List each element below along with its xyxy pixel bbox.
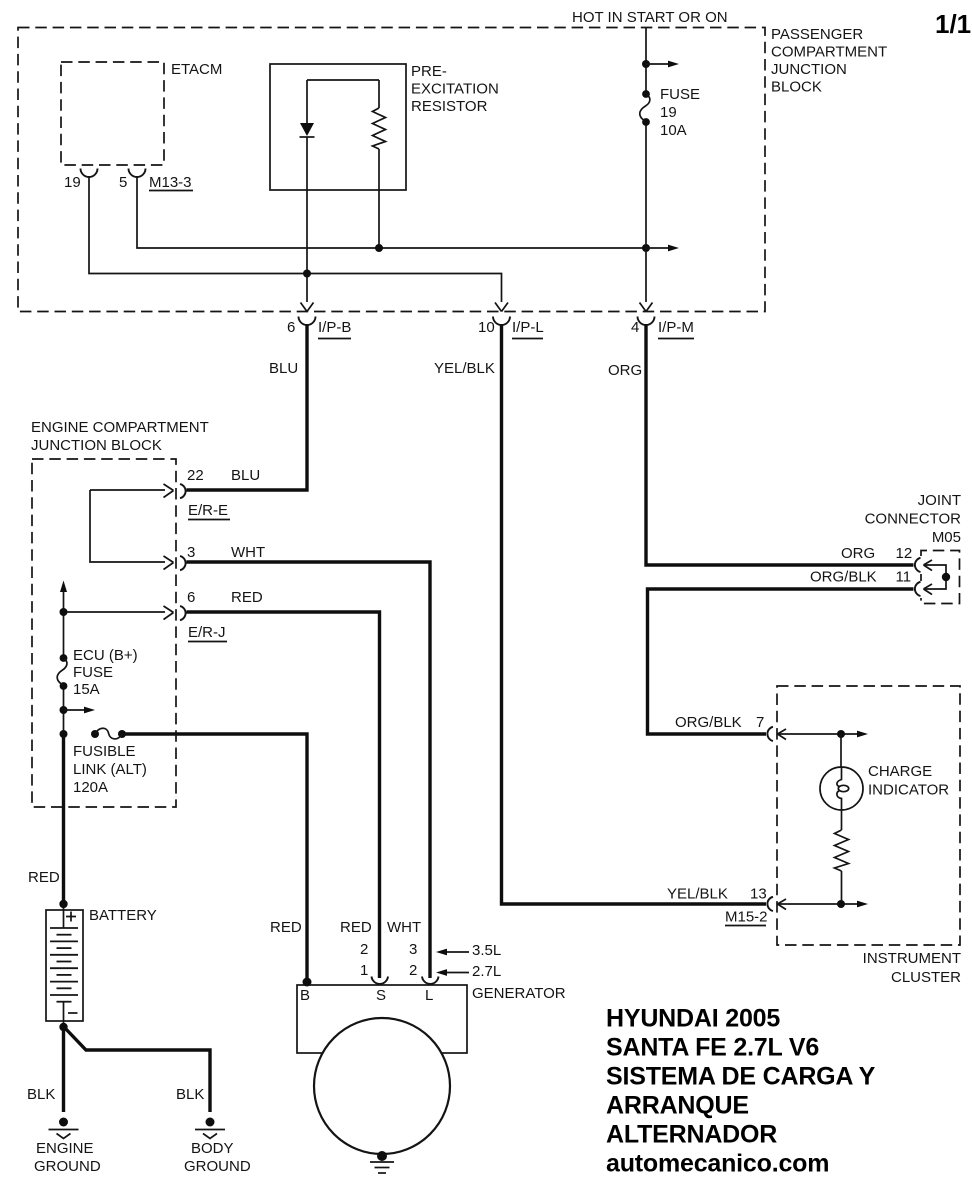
svg-text:CONNECTOR: CONNECTOR [865,511,962,528]
svg-text:E/R-E: E/R-E [188,502,228,519]
svg-text:BODY: BODY [191,1140,234,1157]
svg-text:10A: 10A [660,122,687,139]
svg-text:RESISTOR: RESISTOR [411,98,488,115]
svg-text:B: B [300,987,310,1004]
svg-text:ENGINE: ENGINE [36,1140,94,1157]
svg-text:FUSE: FUSE [73,664,113,681]
svg-text:RED: RED [340,919,372,936]
svg-text:2: 2 [409,962,417,979]
svg-text:WHT: WHT [387,919,421,936]
svg-text:BLK: BLK [176,1086,204,1103]
svg-text:11: 11 [896,569,912,586]
svg-text:ORG: ORG [841,545,875,562]
svg-text:ECU (B+): ECU (B+) [73,647,138,664]
svg-text:RED: RED [28,869,60,886]
svg-text:automecanico.com: automecanico.com [606,1150,829,1178]
svg-text:BLOCK: BLOCK [771,79,822,96]
svg-text:I/P-M: I/P-M [658,319,694,336]
svg-text:SISTEMA DE CARGA Y: SISTEMA DE CARGA Y [606,1063,876,1091]
svg-text:JUNCTION: JUNCTION [771,61,847,78]
svg-text:3.5L: 3.5L [472,942,501,959]
svg-text:WHT: WHT [231,544,265,561]
svg-text:HOT IN START OR ON: HOT IN START OR ON [572,9,728,26]
svg-text:ENGINE COMPARTMENT: ENGINE COMPARTMENT [31,419,209,436]
svg-text:ETACM: ETACM [171,61,222,78]
svg-text:ALTERNADOR: ALTERNADOR [606,1121,777,1149]
svg-text:10: 10 [478,319,495,336]
svg-text:6: 6 [187,589,195,606]
svg-text:SANTA FE 2.7L V6: SANTA FE 2.7L V6 [606,1034,819,1062]
svg-text:L: L [425,987,433,1004]
svg-text:M13-3: M13-3 [149,174,192,191]
svg-text:3: 3 [187,544,195,561]
svg-text:YEL/BLK: YEL/BLK [667,886,728,903]
svg-text:ARRANQUE: ARRANQUE [606,1092,749,1120]
svg-text:PRE-: PRE- [411,63,447,80]
svg-text:ORG: ORG [608,362,642,379]
svg-text:22: 22 [187,467,204,484]
svg-text:COMPARTMENT: COMPARTMENT [771,44,887,61]
svg-text:1: 1 [360,962,368,979]
svg-text:RED: RED [270,919,302,936]
svg-text:7: 7 [756,714,764,731]
svg-text:I/P-B: I/P-B [318,319,351,336]
svg-text:2: 2 [360,941,368,958]
svg-text:S: S [376,987,386,1004]
svg-text:CLUSTER: CLUSTER [891,969,961,986]
svg-text:120A: 120A [73,779,108,796]
svg-text:JUNCTION BLOCK: JUNCTION BLOCK [31,437,162,454]
svg-text:ORG/BLK: ORG/BLK [810,569,877,586]
svg-text:13: 13 [750,886,767,903]
svg-text:CHARGE: CHARGE [868,763,932,780]
svg-text:15A: 15A [73,681,100,698]
svg-text:GENERATOR: GENERATOR [472,985,566,1002]
svg-text:GROUND: GROUND [184,1158,251,1175]
svg-text:RED: RED [231,589,263,606]
svg-text:I/P-L: I/P-L [512,319,544,336]
svg-text:4: 4 [631,319,639,336]
svg-text:E/R-J: E/R-J [188,624,226,641]
svg-text:PASSENGER: PASSENGER [771,26,863,43]
svg-text:M05: M05 [932,529,961,546]
svg-text:M15-2: M15-2 [725,909,768,926]
svg-text:JOINT: JOINT [918,492,961,509]
svg-text:EXCITATION: EXCITATION [411,81,499,98]
svg-text:BLU: BLU [231,467,260,484]
svg-text:19: 19 [660,104,677,121]
svg-text:BLK: BLK [27,1086,55,1103]
svg-text:INDICATOR: INDICATOR [868,782,949,799]
svg-text:LINK (ALT): LINK (ALT) [73,761,147,778]
svg-text:1/1: 1/1 [935,9,971,39]
svg-text:BATTERY: BATTERY [89,907,157,924]
svg-text:GROUND: GROUND [34,1158,101,1175]
svg-text:ORG/BLK: ORG/BLK [675,714,742,731]
svg-text:2.7L: 2.7L [472,963,501,980]
svg-text:5: 5 [119,174,127,191]
svg-text:12: 12 [896,545,913,562]
svg-text:FUSE: FUSE [660,86,700,103]
svg-text:FUSIBLE: FUSIBLE [73,743,136,760]
svg-text:19: 19 [64,174,81,191]
svg-text:6: 6 [287,319,295,336]
svg-text:BLU: BLU [269,360,298,377]
svg-text:HYUNDAI 2005: HYUNDAI 2005 [606,1005,780,1033]
svg-text:YEL/BLK: YEL/BLK [434,360,495,377]
svg-text:3: 3 [409,941,417,958]
svg-text:INSTRUMENT: INSTRUMENT [863,950,961,967]
